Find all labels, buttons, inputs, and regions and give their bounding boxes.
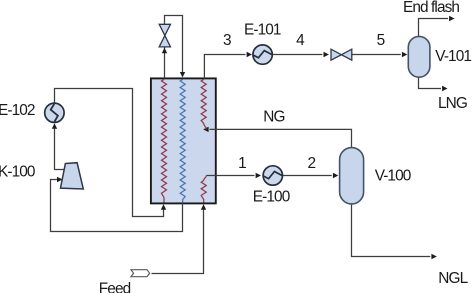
svg-text:NGL: NGL [438, 270, 468, 287]
svg-text:K-100: K-100 [0, 163, 35, 180]
svg-text:5: 5 [377, 32, 385, 49]
svg-text:Feed: Feed [99, 280, 131, 293]
svg-text:LNG: LNG [438, 95, 467, 112]
svg-text:4: 4 [296, 32, 305, 49]
svg-text:3: 3 [223, 32, 231, 49]
svg-text:1: 1 [238, 155, 246, 172]
svg-text:End flash: End flash [403, 0, 459, 16]
svg-text:E-100: E-100 [253, 188, 290, 205]
svg-text:V-100: V-100 [375, 167, 411, 184]
svg-text:E-102: E-102 [0, 102, 35, 119]
svg-text:V-101: V-101 [435, 48, 471, 65]
svg-text:2: 2 [307, 155, 315, 172]
svg-text:NG: NG [263, 108, 284, 125]
svg-text:E-101: E-101 [244, 21, 281, 38]
